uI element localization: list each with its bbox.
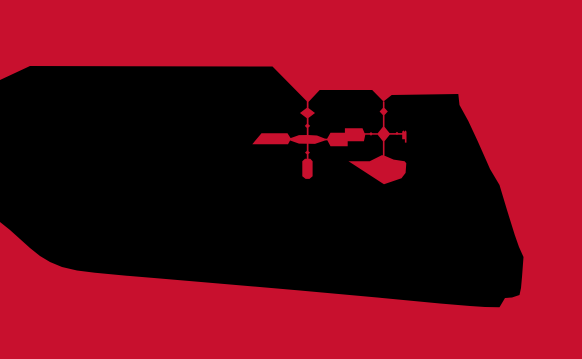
wire W2 horizontal stroke (left arm lens) [287,135,328,144]
junction node D upper (diamond) [380,107,388,116]
wire W1 vertical (node A branch) [307,100,309,162]
resistor R2 body (lower-left bar) [327,133,348,147]
wire W6 segment [389,133,403,135]
wire W4 segment [365,133,378,135]
connector pin P1 (terminal hook) [402,130,406,142]
junction node C (small diamond) [369,132,373,136]
junction node B (small diamond on wire) [317,137,322,142]
junction node D (large diamond) [377,126,390,142]
op-amp U1 (filled triangle flag) [349,155,407,184]
junction node A (diamond) [300,107,315,119]
wire W3 segment [317,139,328,141]
capacitor C1 lead bulge [305,150,310,155]
wire W5 vertical (node D branch) [383,102,385,156]
capacitor C1 body (vertical bar with tip) [302,159,312,179]
junction node E (pin dot) [395,132,398,135]
resistor R3 body (upper-right bar) [345,128,365,141]
resistor R1 body (left bar) [252,133,291,144]
junction node A2 (small diamond) [305,123,310,128]
schematic canvas (black board blob) [0,66,524,307]
